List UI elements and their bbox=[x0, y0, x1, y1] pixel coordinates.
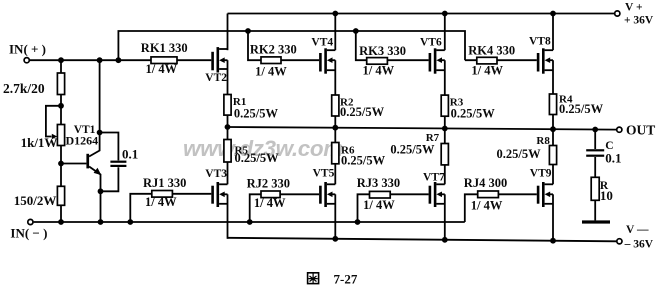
wire bus to RK2 bbox=[248, 31, 319, 60]
transistor VT3 bbox=[205, 168, 227, 207]
svg-text:1/ 4W: 1/ 4W bbox=[471, 64, 503, 78]
svg-text:0.1: 0.1 bbox=[122, 147, 138, 162]
svg-text:R8: R8 bbox=[536, 135, 550, 147]
wire VT7 drain column bbox=[444, 127, 446, 184]
resistor R3 0.25/5W bbox=[441, 95, 495, 121]
terminal IN(-) bbox=[10, 219, 47, 240]
svg-text:1/ 4W: 1/ 4W bbox=[146, 62, 178, 76]
svg-text:OUT: OUT bbox=[626, 123, 655, 138]
junction VT1 base node bbox=[58, 161, 64, 167]
resistor R2 0.25/5W bbox=[332, 95, 385, 119]
terminal OUT bbox=[617, 123, 656, 138]
resistor R1 0.25/5W bbox=[224, 95, 279, 121]
wire VT7 source to V- bbox=[444, 194, 446, 240]
svg-text:7-27: 7-27 bbox=[334, 271, 358, 286]
wire VT3 source to V- bbox=[227, 194, 229, 239]
junction V+ rail bbox=[332, 11, 338, 17]
svg-text:0.25/5W: 0.25/5W bbox=[234, 107, 279, 121]
junction bias node A bbox=[58, 103, 64, 109]
resistor R7 0.25/5W bbox=[390, 132, 448, 165]
wire VT4 source column bbox=[334, 60, 336, 129]
transistor VT4 bbox=[311, 36, 335, 73]
wire RJ2 riser bbox=[250, 194, 319, 222]
svg-text:VT9: VT9 bbox=[530, 167, 552, 179]
resistor RJ3 330 bbox=[357, 176, 400, 212]
resistor 2.7k/20 bbox=[3, 73, 65, 96]
wire bus to RK3 bbox=[356, 31, 429, 60]
resistor RJ1 330 bbox=[143, 176, 186, 209]
resistor R5 0.25/5W bbox=[224, 140, 279, 165]
svg-text:RJ3 330: RJ3 330 bbox=[357, 176, 400, 190]
transistor VT7 bbox=[423, 172, 445, 207]
wire VT8 source column bbox=[552, 60, 554, 130]
wire RK4 to VT8 gate bbox=[465, 59, 537, 61]
resistor R 10 bbox=[591, 177, 613, 203]
svg-text:VT5: VT5 bbox=[313, 168, 335, 180]
junction VT1 emitter cap tap bbox=[98, 188, 104, 194]
wire R to ground bbox=[594, 200, 596, 220]
wire V+ rail bbox=[228, 13, 615, 15]
svg-text:RJ4 300: RJ4 300 bbox=[464, 176, 507, 190]
wire top gate bus bbox=[118, 31, 465, 60]
resistor RK4 330 bbox=[468, 44, 515, 78]
ground bbox=[582, 220, 610, 223]
wire bias column bbox=[60, 60, 62, 222]
junction V+ rail bbox=[550, 11, 556, 17]
svg-text:0.25/5W: 0.25/5W bbox=[451, 107, 496, 121]
svg-text:V —: V — bbox=[626, 224, 649, 236]
wire VT2 source column bbox=[227, 60, 229, 128]
svg-text:RK1 330: RK1 330 bbox=[141, 41, 188, 55]
junction IN(-) line bbox=[355, 219, 361, 225]
transistor VT1 D1264 bbox=[61, 60, 101, 222]
wire C to R bbox=[594, 157, 596, 177]
svg-text:150/2W: 150/2W bbox=[14, 193, 57, 208]
wire IN(+) line bbox=[30, 59, 211, 61]
resistor 150/2W bbox=[14, 186, 65, 208]
wire RJ3 riser bbox=[358, 194, 429, 222]
junction OUT rail bbox=[225, 124, 231, 130]
svg-text:0.25/5W: 0.25/5W bbox=[559, 102, 604, 116]
junction V- rail bbox=[550, 238, 556, 244]
svg-text:1/ 4W: 1/ 4W bbox=[363, 198, 395, 212]
junction OUT rail bbox=[442, 126, 448, 132]
resistor R6 0.25/5W bbox=[332, 143, 386, 168]
svg-text:1/ 4W: 1/ 4W bbox=[255, 64, 287, 78]
svg-text:– 36V: – 36V bbox=[624, 239, 654, 251]
capacitor C 0.1 bbox=[586, 140, 621, 166]
junction IN(+) VT1 collector bbox=[97, 57, 103, 63]
svg-text:VT8: VT8 bbox=[529, 35, 551, 47]
junction V+ rail bbox=[442, 11, 448, 17]
svg-text:1/ 4W: 1/ 4W bbox=[254, 196, 286, 210]
svg-text:0.1: 0.1 bbox=[605, 151, 621, 166]
svg-text:VT6: VT6 bbox=[420, 36, 442, 48]
wire OUT to C bbox=[594, 129, 596, 149]
junction V- rail bbox=[332, 236, 338, 242]
terminal IN(+) bbox=[9, 41, 46, 63]
svg-text:IN( − ): IN( − ) bbox=[10, 225, 47, 240]
svg-text:0.25/5W: 0.25/5W bbox=[235, 151, 280, 165]
svg-text:0.25/5W: 0.25/5W bbox=[497, 147, 542, 161]
svg-text:0.25/5W: 0.25/5W bbox=[340, 105, 385, 119]
svg-text:2.7k/20: 2.7k/20 bbox=[3, 81, 45, 96]
resistor RK1 330 bbox=[141, 41, 188, 76]
junction gate bus bbox=[353, 28, 359, 34]
junction IN(+) 2.7k bbox=[58, 57, 64, 63]
svg-text:RK4 330: RK4 330 bbox=[468, 44, 515, 58]
svg-text:0.25/5W: 0.25/5W bbox=[390, 143, 435, 157]
svg-text:VT2: VT2 bbox=[205, 72, 227, 84]
svg-text:VT4: VT4 bbox=[311, 36, 333, 48]
wire VT6 drain to V+ bbox=[444, 14, 446, 51]
wire VT5 source to V- bbox=[334, 194, 336, 239]
svg-text:1/ 4W: 1/ 4W bbox=[145, 195, 177, 209]
junction IN(-) line bbox=[98, 219, 104, 225]
wire V- rail bbox=[228, 238, 617, 242]
junction OUT rail bbox=[550, 126, 556, 132]
resistor RJ4 300 bbox=[464, 176, 507, 212]
resistor R8 0.25/5W bbox=[497, 135, 557, 164]
junction IN(+) bus riser bbox=[116, 57, 122, 63]
wire VT9 source to V- bbox=[552, 194, 554, 241]
junction OUT rail bbox=[332, 125, 338, 131]
svg-text:+ 36V: + 36V bbox=[624, 14, 654, 26]
wire RJ4 riser bbox=[465, 194, 537, 222]
svg-text:RJ1 330: RJ1 330 bbox=[143, 176, 186, 190]
svg-text:RK2 330: RK2 330 bbox=[250, 43, 297, 57]
svg-text:1/ 4W: 1/ 4W bbox=[363, 63, 395, 77]
wire wiper arm bbox=[46, 106, 61, 139]
wire VT5 drain column bbox=[334, 127, 336, 185]
svg-text:1/ 4W: 1/ 4W bbox=[471, 199, 503, 213]
transistor VT5 bbox=[313, 168, 336, 207]
junction IN(-) line bbox=[127, 219, 133, 225]
wire VT4 drain to V+ bbox=[334, 14, 336, 51]
junction IN(-) line bbox=[247, 219, 253, 225]
wire RJ1 riser bbox=[130, 194, 211, 222]
junction OUT rail bbox=[592, 127, 598, 133]
junction IN(-) line bbox=[58, 219, 64, 225]
svg-text:IN( + ): IN( + ) bbox=[9, 41, 46, 56]
junction gate bus bbox=[245, 28, 251, 34]
terminal V- bbox=[617, 224, 654, 250]
watermark bbox=[183, 136, 343, 161]
transistor VT8 bbox=[529, 35, 553, 73]
svg-text:RJ2 330: RJ2 330 bbox=[247, 176, 290, 190]
junction VT1 collector cap tap bbox=[97, 130, 103, 136]
transistor VT9 bbox=[530, 167, 553, 207]
svg-text:V +: V + bbox=[625, 2, 643, 14]
junction V- rail bbox=[442, 237, 448, 243]
wire OUT rail bbox=[228, 127, 617, 130]
svg-text:VT3: VT3 bbox=[205, 168, 227, 180]
svg-text:10: 10 bbox=[600, 188, 613, 203]
wire VT3 drain column bbox=[227, 126, 229, 184]
wire VT2 drain to V+ bbox=[227, 14, 229, 51]
svg-text:VT7: VT7 bbox=[423, 172, 445, 184]
transistor VT6 bbox=[420, 36, 445, 73]
caption 图 7-27 bbox=[308, 271, 358, 286]
svg-text:D1264: D1264 bbox=[66, 133, 99, 147]
resistor RK3 330 bbox=[359, 44, 406, 77]
terminal V+ bbox=[615, 2, 654, 27]
wire VT8 drain to V+ bbox=[552, 14, 554, 51]
wire VT6 source column bbox=[444, 60, 446, 129]
wire IN(-) line bbox=[34, 221, 465, 223]
svg-text:0.25/5W: 0.25/5W bbox=[341, 154, 386, 168]
transistor VT2 bbox=[205, 47, 227, 84]
resistor RJ2 330 bbox=[247, 176, 290, 210]
capacitor 0.1 (VT1 bypass) bbox=[100, 133, 139, 192]
resistor 1k/1W bbox=[21, 125, 65, 150]
resistor R4 0.25/5W bbox=[549, 94, 603, 117]
svg-text:1k/1W: 1k/1W bbox=[21, 135, 58, 150]
wire VT9 drain column bbox=[552, 128, 554, 184]
svg-text:RK3 330: RK3 330 bbox=[359, 44, 406, 58]
resistor RK2 330 bbox=[250, 43, 297, 79]
